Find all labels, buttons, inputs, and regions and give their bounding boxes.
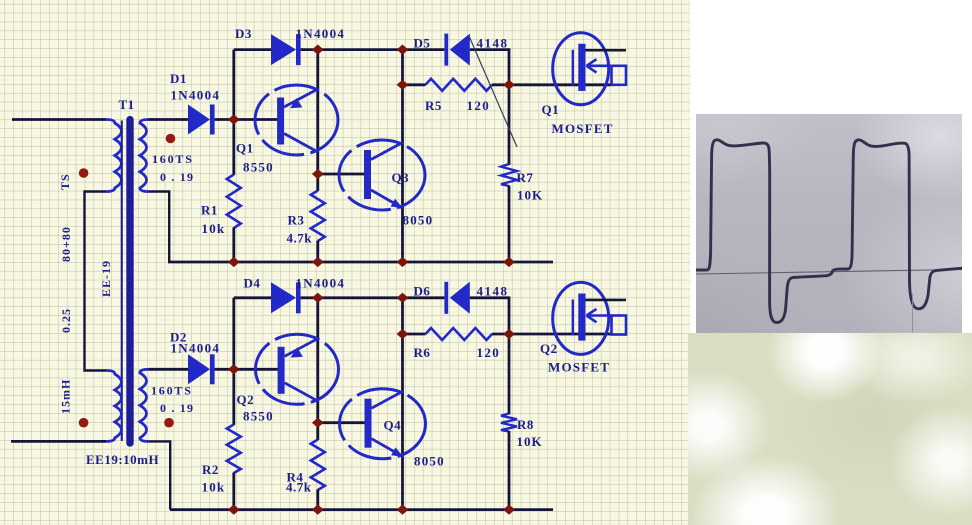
svg-text:1N4004: 1N4004 bbox=[296, 26, 346, 41]
svg-text:160TS: 160TS bbox=[152, 152, 194, 166]
resistor R5 120 bbox=[426, 79, 493, 91]
svg-text:4.7k: 4.7k bbox=[287, 231, 313, 246]
wire vertical bus B2 lower bbox=[316, 490, 319, 510]
diode D4 1N4004 bbox=[271, 282, 296, 313]
svg-text:0 . 19: 0 . 19 bbox=[160, 170, 194, 184]
svg-text:0.25: 0.25 bbox=[59, 308, 73, 333]
wire bottom rail top circuit bbox=[168, 261, 553, 264]
wire D2 to node bbox=[215, 368, 281, 371]
transformer T2 primary winding bbox=[106, 371, 121, 442]
svg-text:R5: R5 bbox=[425, 98, 442, 113]
resistor R3 4.7k bbox=[311, 191, 325, 241]
svg-text:4148: 4148 bbox=[477, 36, 509, 51]
wire D1 to node A bbox=[215, 118, 281, 121]
annotation line bbox=[469, 36, 517, 147]
svg-text:T1: T1 bbox=[119, 97, 135, 112]
wire top-left feed bbox=[12, 118, 106, 121]
wire vertical bus D upper bbox=[508, 48, 511, 165]
winding dots T1 bbox=[79, 168, 89, 178]
wire R5 row left bbox=[403, 83, 426, 86]
faint retrace line bbox=[912, 294, 914, 332]
wire T1 secondary bottom down bbox=[149, 192, 170, 263]
svg-text:1N4004: 1N4004 bbox=[171, 341, 221, 356]
svg-text:1N4004: 1N4004 bbox=[171, 88, 221, 103]
wire T2 secondary to D2 bbox=[149, 368, 189, 371]
wire vertical bus C2 bbox=[401, 298, 404, 510]
svg-text:Q1: Q1 bbox=[542, 102, 560, 117]
wire R5 row to MOSFET gate bbox=[492, 83, 612, 86]
svg-text:MOSFET: MOSFET bbox=[552, 121, 614, 136]
wire D4 row to D6 bbox=[301, 296, 445, 299]
svg-text:1N4004: 1N4004 bbox=[296, 276, 346, 291]
wire Q4 base bbox=[318, 421, 366, 424]
svg-text:TS: TS bbox=[58, 173, 72, 190]
wire D5 to bus D corner bbox=[470, 48, 510, 51]
wire T2 secondary bottom down bbox=[149, 441, 171, 509]
wire D3 row to D5 bbox=[301, 48, 445, 51]
svg-text:4.7k: 4.7k bbox=[286, 480, 312, 495]
wire vertical bus A lower bbox=[232, 228, 235, 263]
svg-text:Q2: Q2 bbox=[237, 392, 255, 407]
resistor R1 10k bbox=[227, 175, 241, 229]
svg-text:MOSFET: MOSFET bbox=[548, 360, 610, 375]
transistor Q4 8050 bbox=[340, 389, 426, 459]
graph paper background bbox=[0, 0, 690, 525]
wire vertical bus D2 upper bbox=[508, 297, 511, 415]
wire R6 row left bbox=[403, 333, 426, 336]
resistor R8 10K bbox=[501, 414, 517, 432]
svg-text:8050: 8050 bbox=[414, 454, 445, 469]
svg-text:10K: 10K bbox=[517, 188, 543, 203]
oscilloscope photo bbox=[696, 114, 962, 333]
wire T1 primary bottom to lower transformer bbox=[85, 192, 107, 371]
svg-text:R6: R6 bbox=[414, 345, 431, 360]
graticule baseline bbox=[696, 270, 962, 275]
wire D6 to bus corner bbox=[470, 296, 510, 299]
square-wave trace bbox=[696, 140, 962, 323]
wire vertical bus D2 lower bbox=[508, 431, 511, 510]
transformer T1 secondary winding 160TS bbox=[140, 120, 149, 192]
wire vertical bus B lower bbox=[316, 241, 319, 262]
MOSFET Q2 bbox=[553, 282, 609, 354]
wire vertical bus A2 upper bbox=[232, 298, 235, 425]
svg-text:8550: 8550 bbox=[243, 160, 274, 175]
resistor R2 10k bbox=[227, 425, 241, 474]
svg-text:160TS: 160TS bbox=[151, 384, 193, 398]
transformer T1 core bbox=[121, 121, 123, 442]
svg-text:15mH: 15mH bbox=[59, 379, 73, 414]
circuit schematic on graph paper bbox=[0, 0, 690, 525]
svg-text:10K: 10K bbox=[517, 434, 543, 449]
svg-text:D1: D1 bbox=[170, 71, 187, 86]
transistor Q1 8550 bbox=[255, 85, 338, 155]
svg-text:120: 120 bbox=[477, 345, 501, 360]
svg-text:0 . 19: 0 . 19 bbox=[160, 401, 194, 415]
svg-text:8550: 8550 bbox=[243, 409, 274, 424]
svg-text:80+80: 80+80 bbox=[59, 226, 73, 262]
junction dots top circuit bbox=[228, 114, 240, 124]
svg-text:D4: D4 bbox=[244, 276, 261, 291]
svg-text:R2: R2 bbox=[202, 462, 219, 477]
svg-text:R8: R8 bbox=[517, 417, 534, 432]
svg-text:D3: D3 bbox=[235, 26, 252, 41]
svg-text:R3: R3 bbox=[288, 213, 305, 228]
MOSFET Q1 bbox=[553, 33, 609, 105]
svg-text:8050: 8050 bbox=[403, 213, 434, 228]
wire vertical bus D lower bbox=[508, 186, 511, 263]
resistor R4 4.7k bbox=[311, 440, 325, 491]
svg-text:EE-19: EE-19 bbox=[99, 260, 113, 297]
wire bottom-left feed bbox=[11, 440, 106, 443]
winding dots T2 bbox=[79, 418, 89, 428]
svg-text:120: 120 bbox=[467, 98, 491, 113]
wire bottom rail bottom circuit bbox=[170, 508, 553, 511]
svg-text:Q1: Q1 bbox=[236, 141, 254, 156]
svg-text:10k: 10k bbox=[202, 480, 226, 495]
wire vertical bus A upper bbox=[232, 50, 235, 175]
wire vertical bus B2 upper bbox=[316, 298, 319, 440]
svg-text:R1: R1 bbox=[201, 203, 218, 218]
resistor R7 10K bbox=[501, 164, 517, 186]
wire R6 row to MOSFET gate bbox=[492, 333, 612, 336]
resistor R6 120 bbox=[426, 328, 493, 340]
wire vertical bus A2 lower bbox=[232, 473, 235, 510]
svg-text:10k: 10k bbox=[202, 221, 226, 236]
wire Q3 base bbox=[318, 173, 365, 176]
diode D5 4148 bbox=[444, 34, 448, 66]
wire D3 row left bbox=[234, 48, 271, 51]
wire T1 secondary to D1 bbox=[149, 118, 189, 121]
transformer T2 secondary winding 160TS bbox=[140, 369, 149, 441]
wire vertical bus C bbox=[401, 50, 404, 262]
diode D3 1N4004 bbox=[271, 34, 296, 65]
svg-text:D5: D5 bbox=[414, 36, 431, 51]
svg-text:Q3: Q3 bbox=[392, 170, 410, 185]
leafy out-of-focus background bbox=[688, 333, 972, 525]
diode D1 1N4004 bbox=[188, 105, 210, 135]
transistor Q2 8550 bbox=[256, 334, 339, 404]
diode D6 4148 bbox=[444, 282, 448, 314]
transformer T1 primary winding bbox=[106, 120, 121, 192]
wire D4 row left bbox=[234, 296, 271, 299]
svg-text:D6: D6 bbox=[414, 284, 431, 299]
svg-text:Q2: Q2 bbox=[540, 341, 558, 356]
wire vertical bus B upper bbox=[316, 50, 319, 191]
svg-text:Q4: Q4 bbox=[384, 418, 402, 433]
svg-text:4148: 4148 bbox=[477, 284, 509, 299]
svg-text:EE19:10mH: EE19:10mH bbox=[86, 452, 159, 467]
diode D2 1N4004 bbox=[188, 354, 210, 384]
svg-text:R7: R7 bbox=[517, 170, 534, 185]
junction dots bottom circuit bbox=[228, 364, 240, 374]
transistor Q3 8050 bbox=[339, 140, 425, 210]
